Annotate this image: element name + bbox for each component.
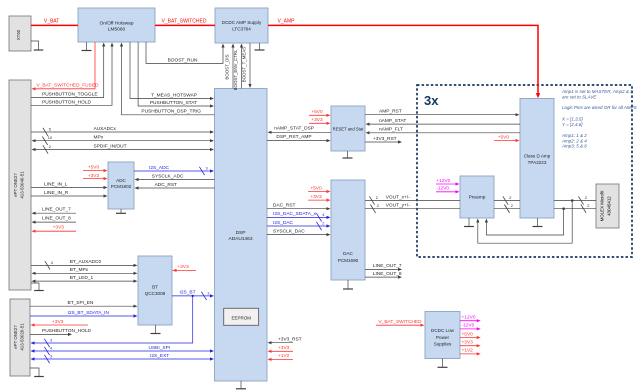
svg-text:I2S_EXT: I2S_EXT xyxy=(150,353,169,359)
svg-text:VOUT_y+/-: VOUT_y+/- xyxy=(386,203,411,209)
svg-text:PCM1690: PCM1690 xyxy=(338,258,359,263)
svg-text:2: 2 xyxy=(509,195,511,200)
wire BOOST_ENV_CTRL xyxy=(233,44,243,91)
svg-text:AMP_RST: AMP_RST xyxy=(379,109,402,115)
svg-text:I2S_BT_SDATA_IN: I2S_BT_SDATA_IN xyxy=(68,310,110,316)
svg-text:+3V3: +3V3 xyxy=(462,340,474,346)
wire +12V0 out xyxy=(460,315,481,323)
svg-text:LINE_IN_R: LINE_IN_R xyxy=(44,190,69,196)
ground xyxy=(151,325,161,334)
svg-text:SYSCLK_DAC: SYSCLK_DAC xyxy=(273,228,305,234)
bus SPDIF_IN/OUT xyxy=(32,144,215,154)
svg-text:ePT ONE27: ePT ONE27 xyxy=(13,173,18,197)
svg-text:+3V3_RST: +3V3_RST xyxy=(278,337,302,343)
ground xyxy=(30,368,44,377)
bus amp out y xyxy=(554,203,596,213)
wire +3V3 RESET xyxy=(309,117,331,125)
svg-text:-12V0: -12V0 xyxy=(436,186,449,192)
svg-text:+3V3: +3V3 xyxy=(310,194,322,200)
svg-text:V_BAT_SWITCHED: V_BAT_SWITCHED xyxy=(378,319,422,325)
block U5 ADC PCM1802 xyxy=(108,162,134,209)
svg-text:LINE_OUT_8: LINE_OUT_8 xyxy=(42,216,71,222)
svg-text:ADAU1463: ADAU1463 xyxy=(229,236,253,242)
svg-text:AUXADCx: AUXADCx xyxy=(94,126,117,132)
bus USBI_SPI xyxy=(31,345,215,355)
svg-text:+5V0: +5V0 xyxy=(88,164,100,170)
wire BOOST_T_MEAS xyxy=(242,43,252,88)
svg-text:2: 2 xyxy=(322,221,324,226)
svg-text:DSP: DSP xyxy=(236,230,246,236)
svg-text:43045412: 43045412 xyxy=(607,196,612,216)
svg-text:Power: Power xyxy=(436,335,449,340)
svg-text:PUSHBUTTON_HOLD: PUSHBUTTON_HOLD xyxy=(42,99,91,105)
bus I2S_DAC_SDATA_x xyxy=(267,211,331,221)
svg-text:+1V2: +1V2 xyxy=(462,348,474,354)
wire +1V2 out xyxy=(460,348,481,356)
bus BT_AUXADC0 xyxy=(31,259,138,269)
svg-text:+12V0: +12V0 xyxy=(436,178,450,184)
wire V_BAT_SWITCHED DCDC xyxy=(376,319,425,327)
svg-text:DSP_RST_AMP: DSP_RST_AMP xyxy=(276,134,311,140)
ground xyxy=(82,42,92,51)
wire I2S_BT_SDATA_IN xyxy=(30,310,138,318)
wire +3V3 J2 xyxy=(31,319,89,327)
wire +5V0 DAC xyxy=(308,185,331,193)
wire V_BAT_SWITCHED xyxy=(155,19,215,26)
svg-text:2: 2 xyxy=(49,144,51,149)
svg-text:PUSHBUTTON_STAT: PUSHBUTTON_STAT xyxy=(150,100,197,106)
svg-text:are set to SLAVE: are set to SLAVE xyxy=(562,94,597,99)
wire BT_SPI_EN xyxy=(30,300,138,308)
ground xyxy=(438,359,448,368)
block U6 RESET and Stat xyxy=(331,106,365,151)
block U11 DCDC Low Power Supplies xyxy=(425,312,460,359)
wire LINE_OUT_8 DAC xyxy=(365,271,402,279)
svg-text:V_AMP: V_AMP xyxy=(278,19,296,25)
svg-text:LINE_OUT_7: LINE_OUT_7 xyxy=(373,263,402,269)
wire +3V3 BT xyxy=(173,264,197,272)
svg-text:LM5060: LM5060 xyxy=(108,27,126,33)
svg-text:3: 3 xyxy=(50,354,52,359)
wire ADC_RST xyxy=(135,182,215,190)
wire +3V3 DSP xyxy=(268,345,294,353)
wire PUSHBUTTON_STAT xyxy=(138,42,214,108)
svg-text:BOOST_DIS: BOOST_DIS xyxy=(225,54,230,79)
wire +3V3 ADC xyxy=(83,173,108,180)
svg-text:413-53020-51: 413-53020-51 xyxy=(20,323,25,351)
svg-text:USBI_SPI: USBI_SPI xyxy=(149,345,171,351)
svg-text:DAC: DAC xyxy=(343,251,353,256)
wire PUSHBUTTON_DSP_TRIG xyxy=(120,43,215,115)
svg-text:+3V3: +3V3 xyxy=(278,345,290,351)
svg-text:DCDC AMP Supply: DCDC AMP Supply xyxy=(222,20,262,25)
svg-text:3: 3 xyxy=(50,338,52,343)
svg-text:+5V0: +5V0 xyxy=(311,109,323,115)
svg-text:LINE_OUT_7: LINE_OUT_7 xyxy=(42,207,71,213)
svg-text:Logic Pins are wired OR for al: Logic Pins are wired OR for all AMPS xyxy=(562,105,637,110)
wire PUSHBUTTON_HOLD xyxy=(31,43,114,106)
svg-text:nAMP_STAT_DSP: nAMP_STAT_DSP xyxy=(274,126,314,132)
wire BOOST_DIS xyxy=(225,44,235,89)
svg-text:3: 3 xyxy=(206,166,208,171)
wire T_MEAS_HOTSWAP xyxy=(130,42,214,100)
wire nAMP_FLT xyxy=(366,127,521,135)
ground xyxy=(31,41,43,50)
svg-text:BT_SPI_EN: BT_SPI_EN xyxy=(68,300,94,306)
wire DAC_RST xyxy=(267,203,331,211)
svg-text:On/Off Hotswap: On/Off Hotswap xyxy=(99,21,133,27)
connector J3 MOLEX Microfit 43045412 xyxy=(596,184,619,228)
svg-text:SYSCLK_ADC: SYSCLK_ADC xyxy=(152,173,184,179)
bus I2S_ADC xyxy=(134,165,214,175)
svg-text:BOOST_ENV_CTRL: BOOST_ENV_CTRL xyxy=(233,49,238,90)
connector XT60 xyxy=(9,16,31,51)
svg-text:PUSHBUTTON_TOGGLE: PUSHBUTTON_TOGGLE xyxy=(42,92,98,98)
wire LINE_IN_L xyxy=(31,181,108,189)
wire LINE_OUT_7 xyxy=(32,207,77,215)
wire BOOST_RUN xyxy=(146,42,225,63)
block U9 Class D Amp TPA3223 xyxy=(520,99,554,219)
bus preamp to amp y xyxy=(494,203,520,213)
svg-text:2: 2 xyxy=(585,195,587,200)
bus VOUT_x+/- xyxy=(365,194,460,204)
block U2 DCDC AMP Supply LTC3784 xyxy=(215,8,268,43)
svg-text:BT_AUXADC0: BT_AUXADC0 xyxy=(70,259,102,265)
wire +12V0 Preamp xyxy=(436,178,460,186)
svg-text:BT: BT xyxy=(152,285,158,290)
svg-text:ePT ONE27: ePT ONE27 xyxy=(13,325,18,349)
block U10 Preamp xyxy=(460,176,494,218)
svg-text:BT_LED_1: BT_LED_1 xyxy=(70,275,94,281)
svg-text:+5V0: +5V0 xyxy=(498,134,510,140)
svg-text:nAMP_FLT: nAMP_FLT xyxy=(379,127,403,133)
wire V_BAT xyxy=(31,19,78,26)
svg-text:RESET and Stat: RESET and Stat xyxy=(333,127,364,132)
svg-text:413-53040-51: 413-53040-51 xyxy=(20,171,25,199)
svg-text:+12V0: +12V0 xyxy=(462,315,476,321)
wire +3V3 out xyxy=(460,340,481,348)
wire +5V0 RESET xyxy=(309,109,331,117)
svg-text:V_BAT: V_BAT xyxy=(44,19,59,25)
wire +5V0 Amp xyxy=(494,134,520,142)
svg-text:DAC_RST: DAC_RST xyxy=(273,203,295,209)
svg-text:+1V2: +1V2 xyxy=(278,353,290,359)
wire AMP_RST xyxy=(365,109,520,117)
svg-text:MPx: MPx xyxy=(94,135,104,141)
svg-text:BT_MPx: BT_MPx xyxy=(70,267,89,273)
svg-text:LINE_IN_L: LINE_IN_L xyxy=(44,181,68,187)
wire +3V3 J1 xyxy=(32,225,77,233)
wire LINE_OUT_7 DAC xyxy=(365,263,402,271)
wire +3V3_RST xyxy=(365,136,402,144)
wire V_BAT_SWITCHED_FUSED xyxy=(32,42,100,90)
svg-text:+3V3_RST: +3V3_RST xyxy=(373,136,397,142)
block U3 DSP ADAU1463 xyxy=(215,89,268,382)
wire PUSHBUTTON_HOLD J2 xyxy=(30,328,91,336)
bus preamp to amp x xyxy=(494,195,520,205)
ground xyxy=(255,43,265,50)
svg-text:LTC3784: LTC3784 xyxy=(232,27,251,32)
svg-text:+3V3: +3V3 xyxy=(52,319,64,325)
svg-text:Amp1: 1 & 2: Amp1: 1 & 2 xyxy=(561,133,587,138)
wire -12V0 Preamp xyxy=(436,186,460,194)
svg-text:ADC_RST: ADC_RST xyxy=(155,182,177,188)
svg-text:ADC: ADC xyxy=(116,178,126,183)
svg-text:I2S_DAC: I2S_DAC xyxy=(273,220,294,226)
block U4 EEPROM xyxy=(224,308,259,325)
wire +3V3 DAC xyxy=(308,194,331,202)
wire DSP_RST_AMP xyxy=(267,134,331,142)
svg-text:+3V3: +3V3 xyxy=(88,173,100,179)
svg-text:nAMP_STAT: nAMP_STAT xyxy=(379,118,406,124)
svg-text:SPDIF_IN/OUT: SPDIF_IN/OUT xyxy=(94,144,127,150)
wire +5V0 out xyxy=(460,331,481,339)
note amplifier configuration xyxy=(561,89,637,149)
ground xyxy=(116,209,126,213)
svg-text:5: 5 xyxy=(49,127,51,132)
svg-text:TPA3223: TPA3223 xyxy=(528,160,547,165)
svg-text:MOLEX Microfit: MOLEX Microfit xyxy=(600,190,605,222)
svg-text:BOOST_RUN: BOOST_RUN xyxy=(168,57,198,63)
svg-text:I2S_DAC_SDATA_x: I2S_DAC_SDATA_x xyxy=(273,211,317,217)
svg-text:2: 2 xyxy=(511,203,513,208)
svg-text:Amp1 is set to MASTER, Amp2 &: Amp1 is set to MASTER, Amp2 & 3 xyxy=(561,89,633,94)
block U7 DAC PCM1690 xyxy=(331,180,365,280)
svg-text:Preamp: Preamp xyxy=(469,195,486,201)
wire feedback x xyxy=(476,201,572,244)
svg-text:+3V3: +3V3 xyxy=(311,117,323,123)
wire PUSHBUTTON_TOGGLE xyxy=(31,43,105,98)
connector J1 ePT ONE27 413-53040-51 xyxy=(9,80,31,290)
svg-text:+5V0: +5V0 xyxy=(462,331,474,337)
svg-text:+3V3: +3V3 xyxy=(177,264,189,270)
svg-text:BOOST_T_MEAS: BOOST_T_MEAS xyxy=(242,47,247,82)
svg-text:PCM1802: PCM1802 xyxy=(111,184,132,189)
bus I2S_DAC xyxy=(267,220,331,230)
wire nAMP_STAT_DSP xyxy=(268,126,332,134)
svg-text:+3V3: +3V3 xyxy=(53,225,65,231)
dashed group 3x amplifiers xyxy=(417,85,632,257)
wire +5V0 ADC xyxy=(83,164,108,172)
svg-text:X = [1,3,5]: X = [1,3,5] xyxy=(561,117,583,122)
wire +1V2 DSP xyxy=(268,353,294,361)
svg-text:DCDC Low: DCDC Low xyxy=(431,328,455,333)
svg-text:PUSHBUTTON_DSP_TRIG: PUSHBUTTON_DSP_TRIG xyxy=(141,109,201,115)
svg-text:2: 2 xyxy=(377,203,379,208)
svg-text:PUSHBUTTON_HOLD: PUSHBUTTON_HOLD xyxy=(42,328,91,334)
svg-text:V_BAT_SWITCHED_FUSED: V_BAT_SWITCHED_FUSED xyxy=(36,83,99,89)
svg-text:2: 2 xyxy=(587,203,589,208)
wire V_AMP xyxy=(268,19,540,99)
bus VOUT_y+/- xyxy=(365,203,460,213)
svg-text:2: 2 xyxy=(376,195,378,200)
svg-text:XT60: XT60 xyxy=(16,29,21,40)
svg-text:Y = [2,4,6]: Y = [2,4,6] xyxy=(562,122,583,127)
bus I2S_BT xyxy=(172,290,214,300)
wire LINE_OUT_8 xyxy=(32,216,77,224)
svg-text:LINE_OUT_8: LINE_OUT_8 xyxy=(373,271,402,277)
wire nAMP_STAT xyxy=(366,118,521,126)
wire +3V3_RST DSP xyxy=(268,337,302,345)
svg-text:QCC3008: QCC3008 xyxy=(145,291,166,296)
ground xyxy=(464,218,474,227)
svg-text:Class D Amp: Class D Amp xyxy=(524,154,551,159)
svg-text:Amp2: 2 & 4: Amp2: 2 & 4 xyxy=(561,138,587,143)
wire feedback y xyxy=(485,209,564,235)
wire BT_MPx xyxy=(32,267,138,275)
svg-text:V_BAT_SWITCHED: V_BAT_SWITCHED xyxy=(162,19,207,25)
svg-text:-12V0: -12V0 xyxy=(462,323,475,329)
connector J2 ePT ONE27 413-53020-51 xyxy=(10,299,30,376)
svg-text:+5V0: +5V0 xyxy=(310,185,322,191)
svg-text:3: 3 xyxy=(207,290,209,295)
svg-text:VOUT_x+/-: VOUT_x+/- xyxy=(386,194,411,200)
wire BT_LED_1 xyxy=(32,275,138,283)
svg-text:3x: 3x xyxy=(424,93,439,108)
ground xyxy=(343,151,353,158)
ground xyxy=(31,283,44,291)
svg-text:T_MEAS_HOTSWAP: T_MEAS_HOTSWAP xyxy=(151,93,197,99)
wire -12V0 out xyxy=(460,323,481,331)
bus MPx xyxy=(32,135,215,145)
wire LINE_IN_R xyxy=(31,190,108,198)
ground xyxy=(533,218,543,227)
ground xyxy=(343,280,353,289)
svg-text:Supplies: Supplies xyxy=(434,342,452,347)
svg-text:I2S_ADC: I2S_ADC xyxy=(149,165,170,171)
svg-text:Amp3: 5 & 6: Amp3: 5 & 6 xyxy=(561,144,587,149)
block U8 BT QCC3008 xyxy=(138,256,172,325)
svg-text:EEPROM: EEPROM xyxy=(231,315,251,320)
wire SYSCLK_DAC xyxy=(267,228,331,236)
bus amp out x xyxy=(554,195,596,205)
bus I2S_EXT xyxy=(31,353,215,363)
ground xyxy=(236,381,246,389)
wire I2S_BT to J2 xyxy=(31,296,193,347)
block U1 On/Off Hotswap LM5060 xyxy=(78,8,155,42)
wire SYSCLK_ADC xyxy=(135,173,215,181)
bus AUXADCx xyxy=(31,126,214,136)
